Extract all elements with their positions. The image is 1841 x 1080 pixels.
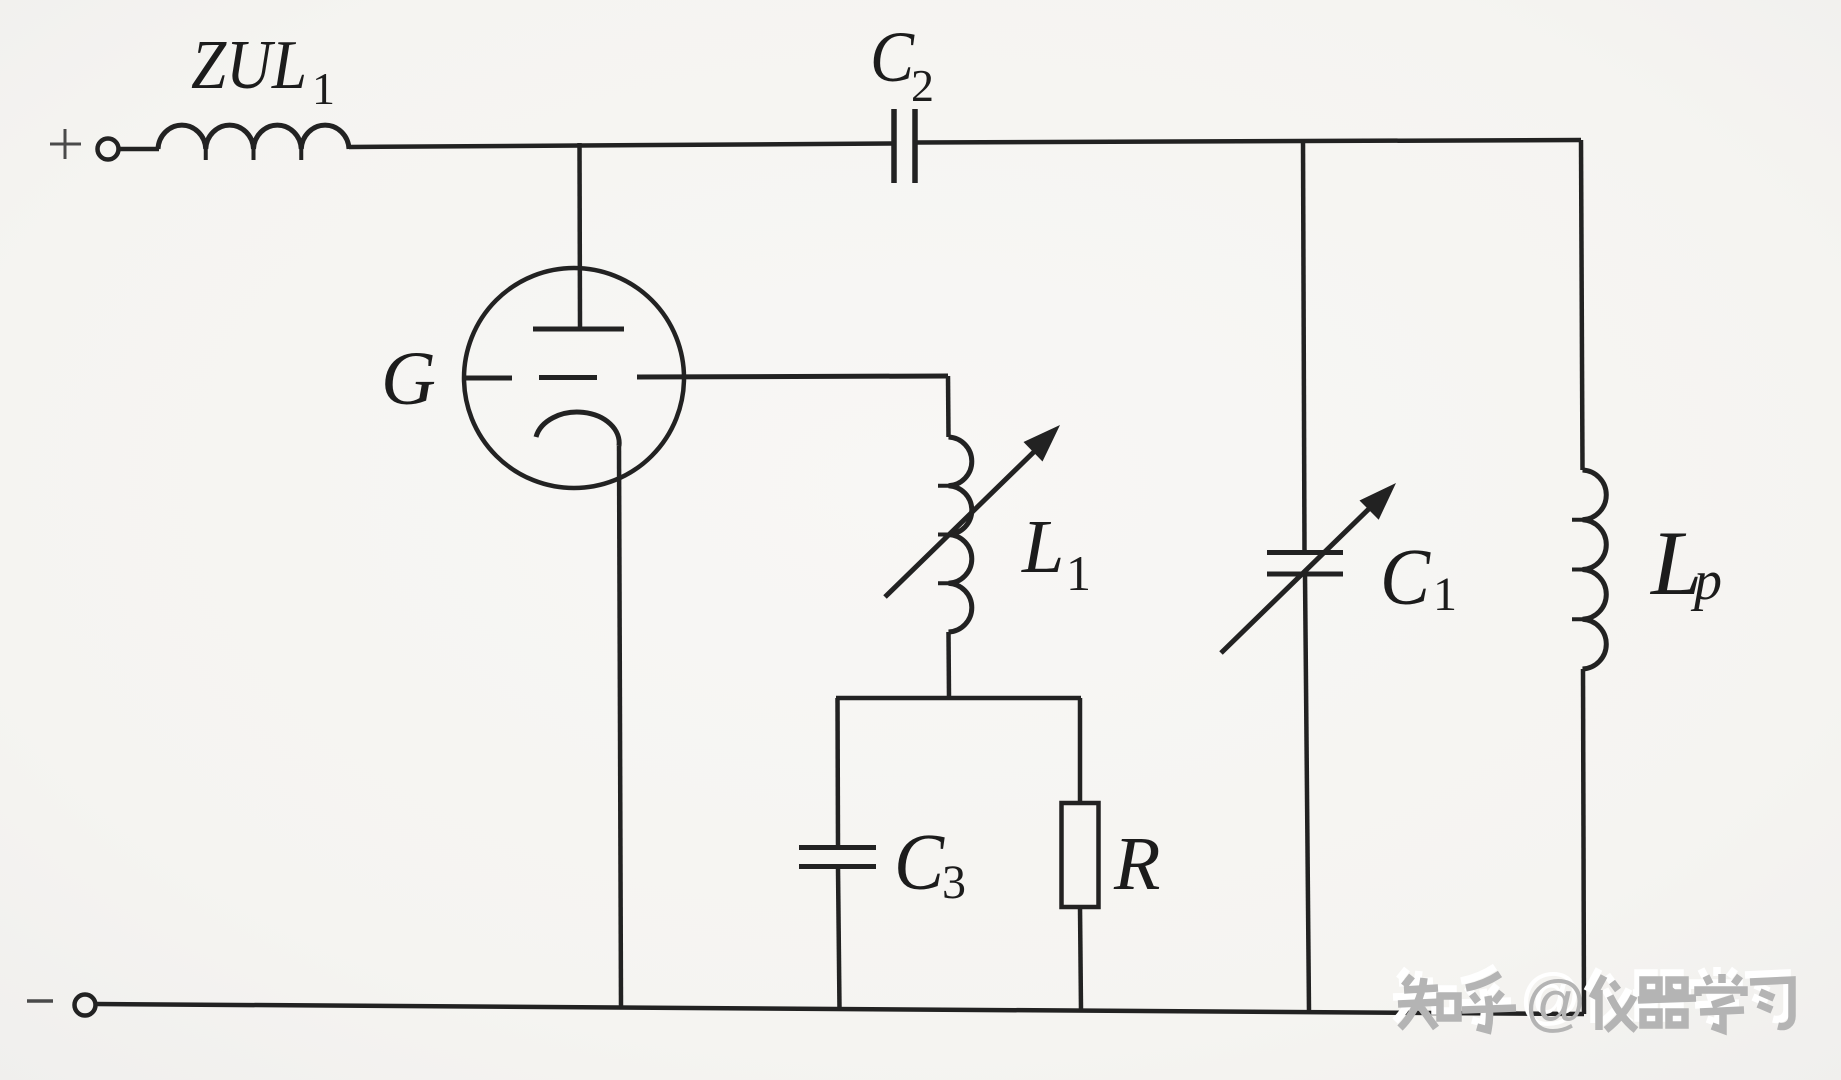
wire C3 branch upper bbox=[835, 698, 840, 846]
inductor Lp bbox=[1583, 470, 1607, 669]
op-amp tube G envelope bbox=[464, 268, 684, 488]
wire C3 branch lower bbox=[838, 868, 840, 1009]
wire bottom rail bbox=[96, 1004, 1584, 1014]
arrow of variable C1 bbox=[1221, 500, 1378, 653]
minus sign bbox=[27, 999, 53, 1003]
grid dashes bbox=[466, 375, 597, 381]
plus sign bbox=[50, 129, 81, 159]
wire R branch lower bbox=[1080, 907, 1081, 1010]
wire Lp branch lower bbox=[1583, 669, 1584, 1014]
wire anode lead bbox=[577, 143, 582, 327]
svg-text:1: 1 bbox=[312, 63, 335, 114]
capacitor C1 bbox=[1267, 553, 1343, 575]
svg-text:ZUL: ZUL bbox=[191, 27, 307, 104]
wire R branch upper bbox=[1078, 698, 1083, 803]
svg-text:2: 2 bbox=[911, 60, 934, 111]
wire bbox=[119, 147, 159, 152]
svg-text:@: @ bbox=[1524, 969, 1587, 1038]
anode plate bbox=[533, 327, 624, 332]
arrowhead C1 bbox=[1360, 483, 1397, 520]
wire top bar of C3/R group bbox=[836, 696, 1081, 701]
svg-text:R: R bbox=[1113, 822, 1160, 906]
svg-text:1: 1 bbox=[1066, 545, 1091, 601]
terminal + bbox=[98, 139, 119, 160]
wire C1 branch lower bbox=[1305, 575, 1309, 1012]
svg-text:C: C bbox=[894, 819, 946, 907]
wire grid lead bbox=[637, 376, 948, 377]
wire C1 branch upper bbox=[1303, 141, 1305, 553]
wire cathode lead bbox=[619, 446, 621, 1008]
wire Lp branch upper bbox=[1581, 140, 1583, 470]
svg-text:3: 3 bbox=[942, 856, 966, 909]
cathode bbox=[536, 412, 619, 446]
inductor ZUL1 bbox=[158, 125, 349, 149]
arrow of variable L1 bbox=[885, 444, 1042, 597]
wire to L1 bbox=[946, 376, 951, 437]
terminal - bbox=[75, 995, 96, 1016]
svg-text:C: C bbox=[870, 17, 915, 97]
wire bbox=[915, 140, 1581, 143]
arrowhead L1 bbox=[1024, 425, 1061, 462]
resistor R bbox=[1062, 803, 1099, 907]
capacitor C3 bbox=[799, 848, 876, 867]
svg-text:G: G bbox=[381, 337, 436, 421]
inductor L1 bbox=[949, 437, 972, 632]
svg-text:1: 1 bbox=[1433, 568, 1457, 621]
svg-text:C: C bbox=[1380, 534, 1432, 622]
capacitor C2 bbox=[894, 109, 915, 183]
svg-text:p: p bbox=[1690, 550, 1722, 612]
wire bbox=[946, 632, 951, 698]
wire bbox=[349, 144, 894, 148]
svg-text:L: L bbox=[1021, 505, 1064, 589]
